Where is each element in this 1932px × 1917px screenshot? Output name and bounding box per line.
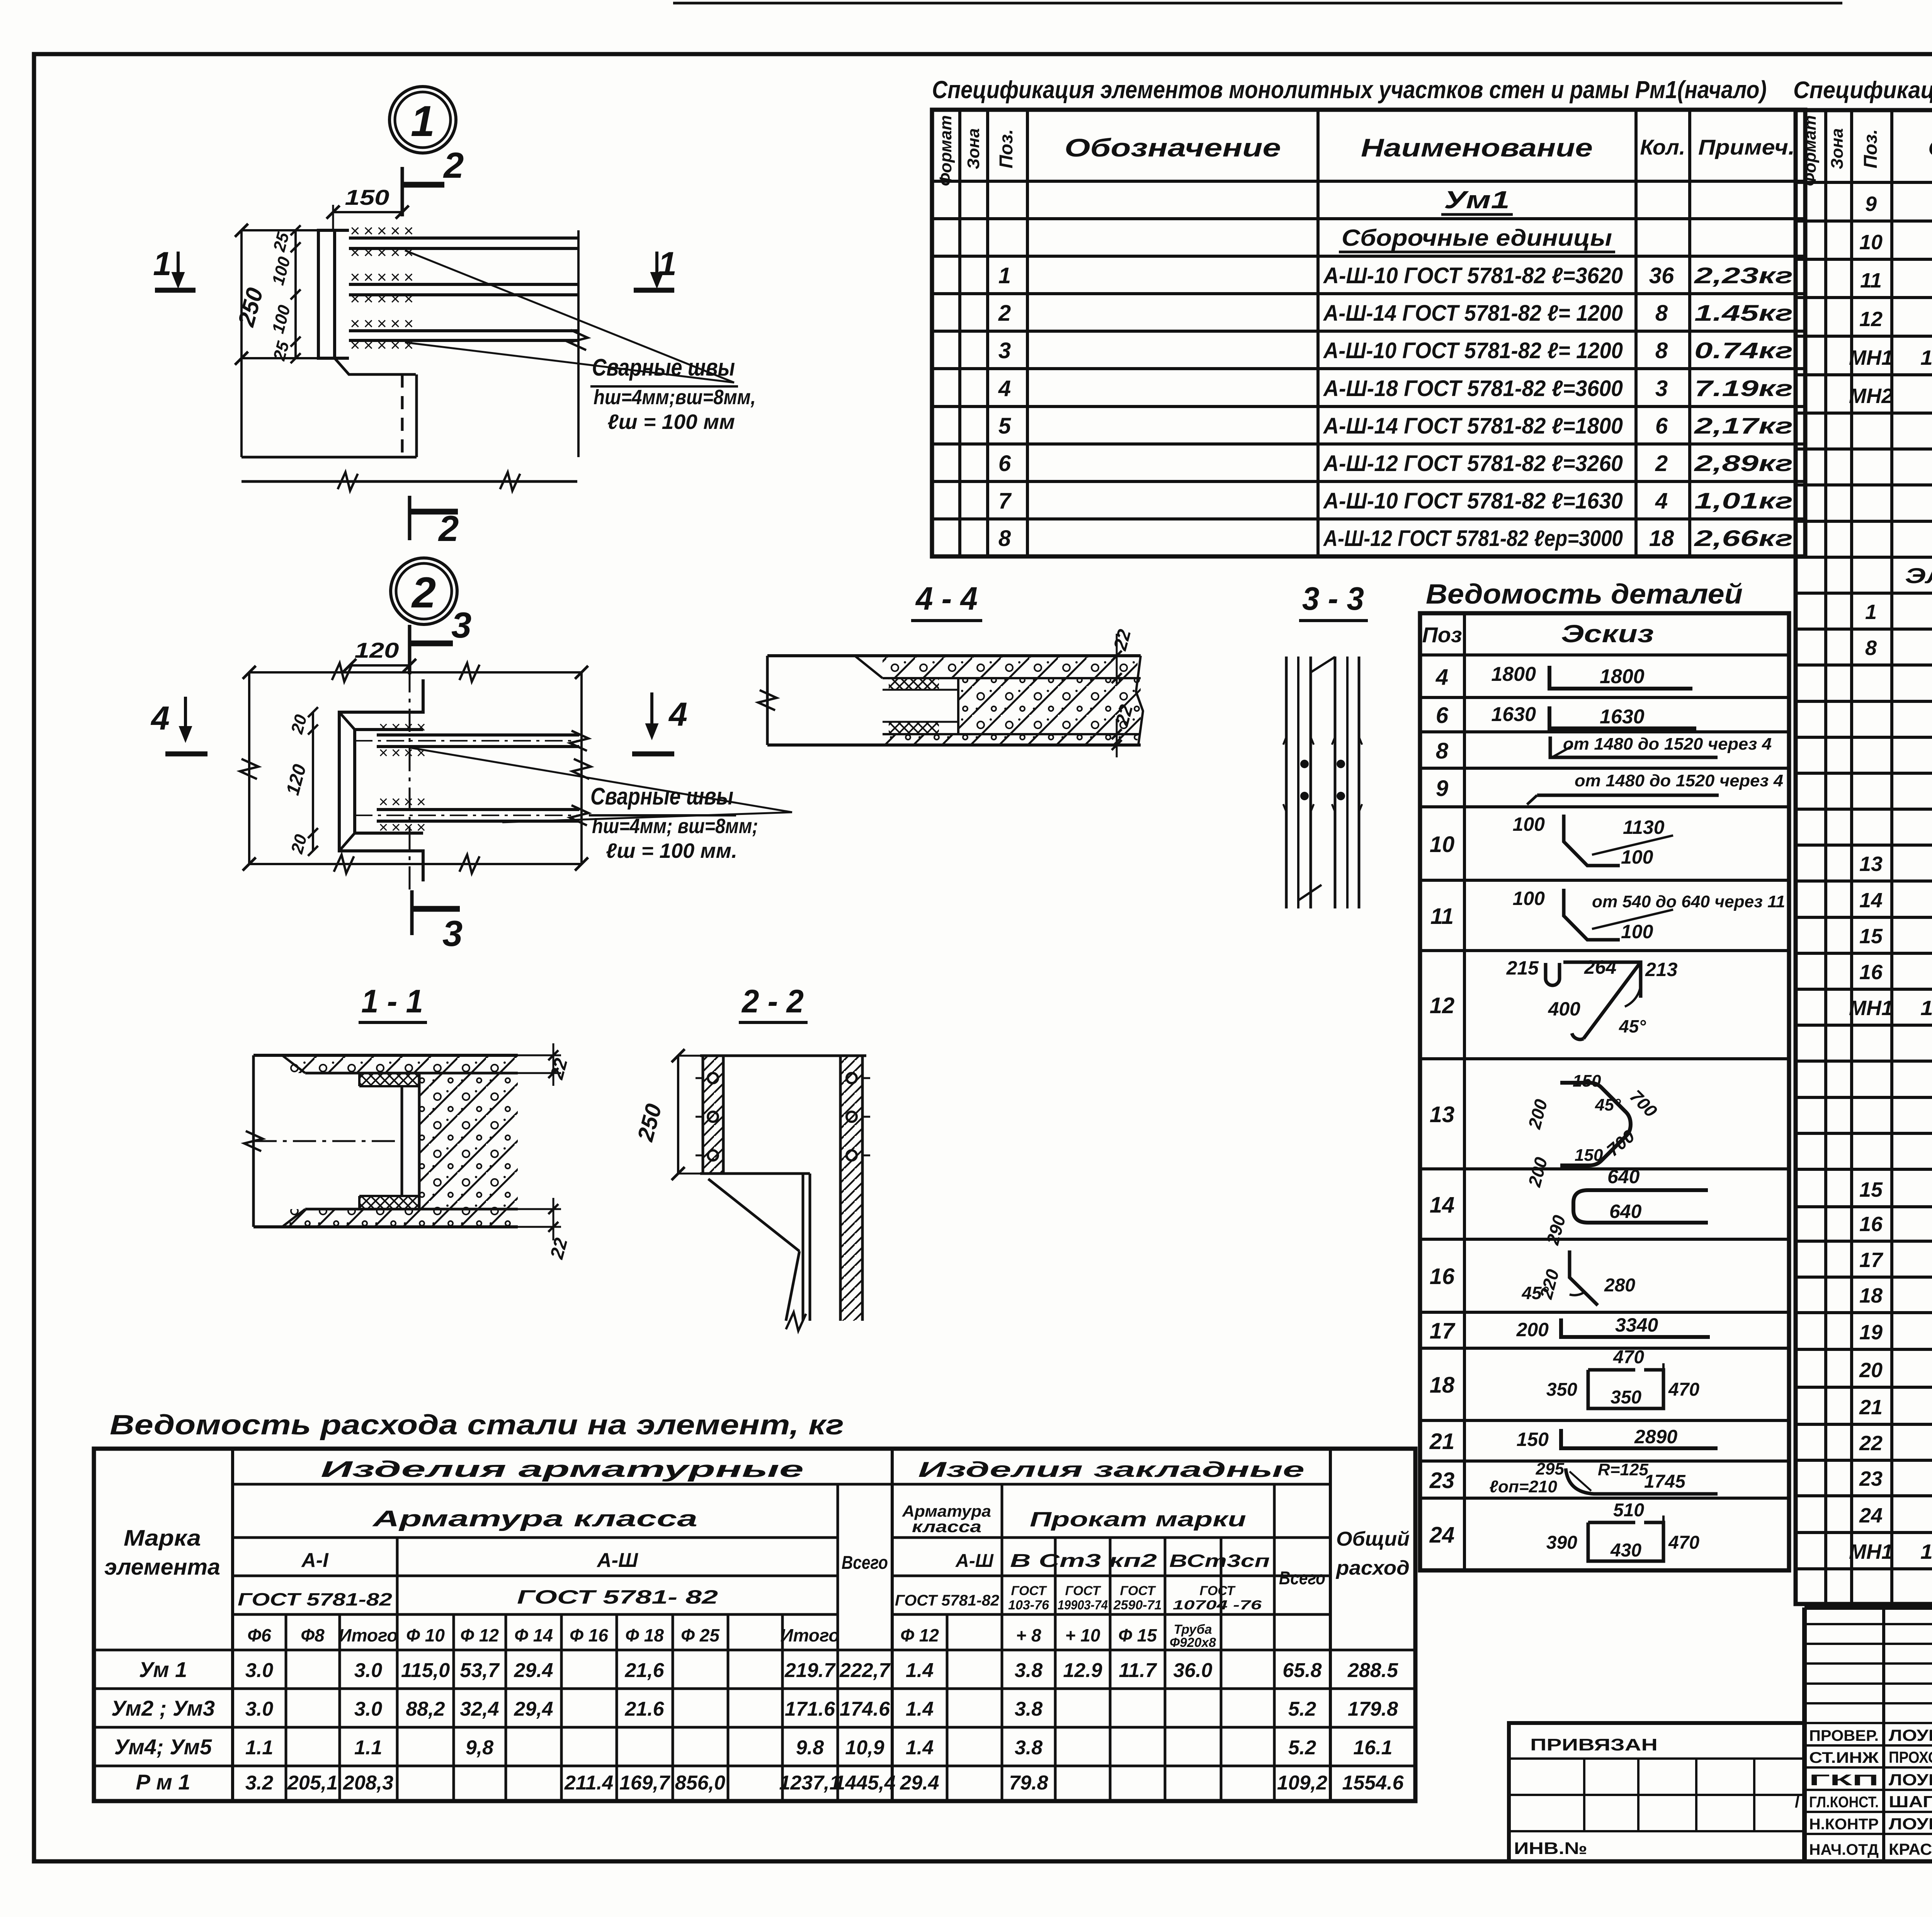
svg-text:1.45кг: 1.45кг	[1694, 301, 1793, 326]
svg-text:9,8: 9,8	[466, 1737, 493, 1759]
svg-text:ГКП: ГКП	[1809, 1772, 1879, 1789]
svg-text:МН2: МН2	[1849, 384, 1893, 408]
svg-text:21.6: 21.6	[624, 1698, 664, 1720]
svg-text:ИНВ.№: ИНВ.№	[1514, 1839, 1587, 1858]
svg-text:88,2: 88,2	[406, 1698, 445, 1720]
detail 2 section mark 3 top	[408, 625, 412, 674]
section 4-4 concrete body	[958, 678, 1141, 734]
svg-text:1: 1	[658, 245, 677, 282]
svg-text:от 1480 до 1520 через 4: от 1480 до 1520 через 4	[1575, 771, 1783, 790]
svg-text:14: 14	[1859, 889, 1883, 912]
section 4-4 weld strips	[889, 678, 939, 690]
svg-text:2: 2	[438, 508, 459, 549]
detail 1 section mark 1 right	[634, 288, 674, 293]
svg-text:А-Ш-12 ГОСТ 5781-82 ℓер=3000: А-Ш-12 ГОСТ 5781-82 ℓер=3000	[1323, 526, 1623, 551]
svg-text:1: 1	[411, 97, 435, 145]
svg-text:22: 22	[1859, 1432, 1883, 1455]
scan edge artifact top	[673, 2, 1842, 5]
svg-text:470: 470	[1668, 1533, 1699, 1553]
svg-text:400: 400	[1548, 998, 1581, 1020]
svg-text:Ф 16: Ф 16	[570, 1625, 608, 1645]
svg-text:21: 21	[1429, 1429, 1455, 1454]
svg-text:211.4: 211.4	[564, 1772, 613, 1794]
detail 2 centerline	[409, 630, 411, 893]
svg-text:+ 8: + 8	[1016, 1625, 1041, 1645]
detail 2 right dim line	[580, 672, 583, 864]
svg-text:1445,4: 1445,4	[834, 1772, 895, 1794]
svg-text:ℓоп=210: ℓоп=210	[1489, 1477, 1557, 1496]
svg-text:2890: 2890	[1634, 1426, 1677, 1448]
svg-text:3.8: 3.8	[1015, 1659, 1043, 1682]
svg-text:264: 264	[1584, 956, 1616, 978]
svg-text:19903-74: 19903-74	[1058, 1598, 1108, 1613]
svg-text:11.7: 11.7	[1119, 1659, 1157, 1682]
section 4-4 dim 22 top	[1116, 634, 1118, 684]
svg-text:5.2: 5.2	[1288, 1698, 1316, 1720]
svg-text:1554.6: 1554.6	[1342, 1772, 1404, 1794]
svg-text:2: 2	[411, 568, 436, 617]
svg-text:856,0: 856,0	[675, 1772, 725, 1794]
svg-text:1800: 1800	[1600, 665, 1645, 688]
svg-text:ГОСТ: ГОСТ	[1200, 1584, 1236, 1598]
detail 1 right edge	[577, 230, 580, 457]
svg-text:11: 11	[1430, 904, 1454, 929]
svg-text:3340: 3340	[1615, 1314, 1658, 1336]
svg-text:3: 3	[451, 605, 471, 645]
detail 2 left dim line	[248, 672, 250, 864]
svg-text:103-76: 103-76	[1008, 1598, 1049, 1613]
svg-text:ГОСТ 5781-82: ГОСТ 5781-82	[895, 1592, 999, 1609]
svg-text:4: 4	[1655, 488, 1668, 514]
svg-text:Примеч.: Примеч.	[1698, 135, 1795, 159]
svg-text:32,4: 32,4	[460, 1698, 499, 1720]
detail 1 section mark 1 left	[155, 288, 196, 293]
svg-text:10: 10	[1430, 832, 1455, 857]
svg-text:8: 8	[1655, 338, 1668, 363]
svg-text:24: 24	[1429, 1522, 1455, 1548]
parts list grid	[1420, 613, 1789, 1570]
section 2-2 bolts	[708, 1073, 718, 1083]
svg-text:169,7: 169,7	[619, 1772, 670, 1794]
svg-text:8: 8	[1865, 636, 1877, 660]
svg-text:Ведомость деталей: Ведомость деталей	[1426, 579, 1743, 610]
svg-text:А-Ш-14 ГОСТ 5781-82 ℓ=1800: А-Ш-14 ГОСТ 5781-82 ℓ=1800	[1323, 413, 1623, 439]
svg-text:Всего: Всего	[842, 1553, 888, 1573]
svg-text:Формат: Формат	[1801, 115, 1820, 186]
detail 2 channel plate (plan)	[339, 679, 423, 881]
svg-text:Итого: Итого	[339, 1625, 398, 1645]
svg-text:Кол.: Кол.	[1640, 135, 1685, 159]
svg-text:4: 4	[668, 696, 687, 733]
detail 2 weld leader lines	[410, 748, 792, 812]
svg-text:Поз.: Поз.	[1861, 129, 1881, 168]
svg-text:13: 13	[1430, 1102, 1455, 1127]
svg-text:5: 5	[998, 413, 1011, 439]
svg-text:200: 200	[1516, 1319, 1549, 1340]
svg-text:36.0: 36.0	[1173, 1659, 1212, 1682]
detail 2 dim chain 20/120/20	[312, 712, 314, 851]
svg-text:640: 640	[1609, 1201, 1642, 1222]
svg-text:2 - 2: 2 - 2	[741, 983, 804, 1019]
svg-text:Ум1: Ум1	[1444, 186, 1510, 214]
svg-text:20: 20	[1859, 1359, 1883, 1382]
svg-text:19: 19	[1859, 1321, 1883, 1344]
svg-text:23: 23	[1429, 1468, 1455, 1493]
svg-text:11: 11	[1860, 269, 1882, 292]
svg-text:174.6: 174.6	[840, 1698, 890, 1720]
title block	[1804, 1607, 1932, 1861]
svg-text:Поз.: Поз.	[996, 129, 1017, 168]
sketch row 14	[1573, 1190, 1708, 1223]
svg-text:ГОСТ 5781- 82: ГОСТ 5781- 82	[517, 1586, 718, 1608]
svg-text:1630: 1630	[1600, 706, 1645, 728]
svg-text:ГОСТ: ГОСТ	[1065, 1584, 1102, 1598]
svg-text:1: 1	[998, 263, 1011, 288]
sketch row 6	[1549, 706, 1696, 728]
svg-text:1.1: 1.1	[245, 1737, 273, 1759]
svg-text:Ф920х8: Ф920х8	[1170, 1635, 1216, 1650]
svg-text:Общий: Общий	[1336, 1528, 1410, 1550]
svg-text:ГОСТ: ГОСТ	[1011, 1584, 1048, 1598]
svg-text:3.0: 3.0	[354, 1698, 382, 1720]
svg-text:ЛОУЦКЕР: ЛОУЦКЕР	[1889, 1771, 1932, 1789]
svg-text:3.2: 3.2	[245, 1772, 273, 1794]
section 1-1 dim 22 top	[518, 1055, 561, 1056]
svg-text:10704 -76: 10704 -76	[1173, 1598, 1262, 1613]
svg-text:2,66кг: 2,66кг	[1694, 526, 1793, 551]
svg-text:1.400-15.В1. 150-26: 1.400-15.В1. 150-26	[1920, 997, 1932, 1020]
svg-text:2,23кг: 2,23кг	[1694, 263, 1793, 288]
svg-text:510: 510	[1613, 1500, 1644, 1521]
svg-text:1.400-15. В1. 150-26: 1.400-15. В1. 150-26	[1920, 1540, 1932, 1563]
svg-text:××××: ××××	[379, 793, 429, 811]
svg-text:А-Ш-14 ГОСТ 5781-82 ℓ= 1200: А-Ш-14 ГОСТ 5781-82 ℓ= 1200	[1323, 301, 1623, 326]
svg-text:3.8: 3.8	[1015, 1698, 1043, 1720]
section 1-1 top weld strip	[359, 1073, 419, 1086]
svg-text:××××: ××××	[379, 718, 429, 736]
svg-text:Ф 12: Ф 12	[460, 1625, 499, 1645]
svg-text:Обозначение: Обозначение	[1928, 133, 1932, 162]
svg-text:СТ.ИНЖ: СТ.ИНЖ	[1809, 1749, 1879, 1766]
svg-text:45°: 45°	[1619, 1016, 1646, 1036]
svg-text:Сварные швы: Сварные швы	[592, 354, 735, 381]
svg-text:×××××: ×××××	[350, 221, 417, 240]
svg-text:219.7: 219.7	[784, 1659, 836, 1682]
section 4-4 bottom concrete band	[883, 734, 1138, 745]
svg-text:3.0: 3.0	[245, 1698, 273, 1720]
svg-text:3: 3	[442, 913, 463, 954]
section 1-1 dim 22 bottom	[518, 1208, 561, 1210]
svg-text:179.8: 179.8	[1348, 1698, 1398, 1720]
svg-text:Зона: Зона	[964, 128, 983, 169]
svg-text:hш=4мм; вш=8мм;: hш=4мм; вш=8мм;	[592, 815, 758, 838]
svg-text:2,17кг: 2,17кг	[1694, 413, 1793, 439]
svg-text:Ф 25: Ф 25	[681, 1625, 720, 1645]
svg-text:213: 213	[1645, 959, 1678, 980]
svg-text:Изделия закладные: Изделия закладные	[918, 1457, 1304, 1482]
svg-text:4: 4	[150, 700, 170, 737]
svg-text:Зона: Зона	[1828, 128, 1847, 169]
detail 1 rebar bars	[349, 236, 578, 240]
svg-text:×××××: ×××××	[350, 289, 417, 308]
svg-text:1630: 1630	[1491, 703, 1536, 726]
svg-text:А-Ш-10 ГОСТ 5781-82 ℓ=1630: А-Ш-10 ГОСТ 5781-82 ℓ=1630	[1323, 488, 1623, 514]
svg-text:1800: 1800	[1491, 663, 1536, 685]
svg-text:16: 16	[1859, 961, 1883, 984]
svg-text:Спецификация элементов монолит: Спецификация элементов монолитных участк…	[932, 76, 1767, 104]
svg-text:150: 150	[1575, 1146, 1603, 1165]
svg-text:Ведомость расхода стали на: Ведомость расхода стали на элемент, кг	[110, 1410, 844, 1441]
svg-text:МН1: МН1	[1849, 1540, 1893, 1563]
svg-text:Сборочные единицы: Сборочные единицы	[1342, 225, 1612, 251]
svg-text:79.8: 79.8	[1009, 1772, 1048, 1794]
svg-text:16: 16	[1430, 1264, 1455, 1289]
svg-text:430: 430	[1610, 1540, 1641, 1561]
svg-text:×××××: ×××××	[350, 268, 417, 287]
svg-text:12.9: 12.9	[1063, 1659, 1102, 1682]
svg-text:Марка: Марка	[124, 1526, 201, 1551]
svg-text:350: 350	[1546, 1379, 1577, 1400]
svg-text:3 - 3: 3 - 3	[1302, 580, 1364, 617]
section 3-3 left wall element	[1285, 657, 1288, 908]
spec table 1 grid	[932, 110, 1805, 556]
svg-text:8: 8	[1436, 738, 1449, 764]
svg-text:ПРОХОРОВА: ПРОХОРОВА	[1889, 1748, 1932, 1766]
svg-text:от 540 до 640 через 11: от 540 до 640 через 11	[1592, 892, 1785, 911]
svg-text:1.4: 1.4	[906, 1737, 934, 1759]
svg-text:1: 1	[1865, 600, 1877, 624]
svg-text:45°: 45°	[1521, 1283, 1549, 1303]
svg-text:3: 3	[998, 338, 1011, 363]
svg-text:53,7: 53,7	[460, 1659, 500, 1682]
svg-text:21: 21	[1859, 1396, 1883, 1419]
svg-text:2: 2	[998, 301, 1011, 326]
svg-text:222,7: 222,7	[839, 1659, 891, 1682]
svg-text:208,3: 208,3	[343, 1772, 393, 1794]
svg-text:9: 9	[1436, 776, 1448, 801]
svg-text:2,89кг: 2,89кг	[1694, 451, 1793, 476]
svg-text:А-Ш-18 ГОСТ 5781-82 ℓ=3600: А-Ш-18 ГОСТ 5781-82 ℓ=3600	[1323, 376, 1623, 401]
svg-text:2590-71: 2590-71	[1113, 1598, 1162, 1613]
svg-text:10: 10	[1859, 231, 1883, 254]
svg-text:Ум 1: Ум 1	[139, 1657, 187, 1682]
svg-text:100: 100	[1621, 921, 1653, 942]
svg-text:4: 4	[998, 376, 1011, 401]
svg-text:МН1: МН1	[1849, 346, 1893, 369]
svg-text:ГОСТ 5781-82: ГОСТ 5781-82	[238, 1589, 393, 1609]
svg-text:Ум4; Ум5: Ум4; Ум5	[114, 1735, 212, 1759]
svg-text:Всего: Всего	[1279, 1568, 1325, 1589]
svg-text:171.6: 171.6	[785, 1698, 835, 1720]
svg-text:hш=4мм;вш=8мм,: hш=4мм;вш=8мм,	[594, 386, 756, 409]
svg-text:36: 36	[1649, 263, 1674, 288]
detail 2 bubble	[391, 558, 457, 624]
section 2-2 dim 250	[677, 1056, 679, 1174]
svg-text:2: 2	[443, 145, 464, 185]
svg-text:ЛОУЦКЕР: ЛОУЦКЕР	[1889, 1815, 1932, 1833]
svg-text:1.4: 1.4	[906, 1698, 934, 1720]
section 1-1 channel steel	[401, 1086, 403, 1196]
svg-text:150: 150	[1573, 1072, 1601, 1090]
svg-text:5.2: 5.2	[1288, 1737, 1316, 1759]
svg-text:Ф6: Ф6	[247, 1625, 271, 1645]
svg-text:4: 4	[1435, 665, 1448, 690]
svg-text:Ум2 ; Ум3: Ум2 ; Ум3	[111, 1696, 215, 1720]
svg-text:расход: расход	[1335, 1557, 1410, 1579]
svg-text:12: 12	[1430, 993, 1455, 1018]
svg-text:280: 280	[1604, 1275, 1635, 1296]
svg-text:ГОСТ: ГОСТ	[1120, 1584, 1156, 1598]
detail 2 top dim line	[249, 671, 582, 674]
svg-text:12: 12	[1859, 308, 1883, 331]
section 1-1 left edge	[252, 1055, 255, 1227]
detail 1 section mark 2 bottom	[408, 496, 412, 540]
section 1-1 centerline	[253, 1140, 402, 1142]
spec table 2 grid	[1796, 110, 1932, 1604]
svg-text:элемента: элемента	[104, 1555, 220, 1580]
section 3-3 break marks	[1311, 657, 1335, 672]
svg-text:470: 470	[1613, 1347, 1644, 1368]
svg-text:Р м 1: Р м 1	[136, 1770, 190, 1794]
svg-text:109,2: 109,2	[1277, 1772, 1327, 1794]
svg-text:1.400-15. В1. 150-26: 1.400-15. В1. 150-26	[1920, 346, 1932, 369]
detail 2 bottom dim line	[249, 863, 582, 865]
svg-text:Ф 15: Ф 15	[1118, 1625, 1157, 1645]
sketch row 10	[1564, 815, 1620, 866]
svg-text:×××××: ×××××	[350, 314, 417, 333]
svg-text:18: 18	[1859, 1284, 1883, 1307]
svg-text:А-Ш-10 ГОСТ 5781-82 ℓ=3620: А-Ш-10 ГОСТ 5781-82 ℓ=3620	[1323, 263, 1623, 288]
detail 1 bottom boundary line	[241, 480, 577, 483]
svg-text:ℓш = 100 мм: ℓш = 100 мм	[607, 410, 735, 434]
svg-text:Обозначение: Обозначение	[1065, 133, 1281, 162]
attachment box (privyazan)	[1509, 1723, 1804, 1861]
svg-text:150: 150	[1517, 1429, 1549, 1450]
svg-text:1.4: 1.4	[906, 1659, 934, 1682]
svg-text:16.1: 16.1	[1353, 1737, 1392, 1759]
svg-text:100: 100	[1621, 846, 1653, 868]
svg-text:4 - 4: 4 - 4	[915, 580, 978, 617]
svg-text:Арматура класса: Арматура класса	[372, 1506, 697, 1531]
svg-text:15: 15	[1859, 1178, 1883, 1201]
sketch row 4	[1549, 666, 1692, 689]
svg-text:Спецификация элементов моноли: Спецификация элементов монолитных участк…	[1793, 77, 1932, 104]
svg-text:В Ст3 кп2: В Ст3 кп2	[1010, 1551, 1157, 1571]
svg-text:18: 18	[1430, 1373, 1455, 1398]
svg-text:45°: 45°	[1595, 1095, 1621, 1114]
svg-text:Ф 12: Ф 12	[900, 1625, 939, 1645]
section 4-4 dim 22 bottom	[1116, 719, 1118, 757]
svg-text:1237,1: 1237,1	[779, 1772, 840, 1794]
detail 1 dim chain 25/100/100/25	[294, 230, 297, 358]
svg-text:Поз: Поз	[1422, 623, 1462, 647]
section 4-4 top concrete band	[883, 656, 1138, 678]
svg-text:16: 16	[1859, 1213, 1883, 1236]
svg-text:Ф 14: Ф 14	[514, 1625, 553, 1645]
section 2-2 lower outline	[700, 1172, 810, 1175]
svg-text:R=125: R=125	[1598, 1460, 1648, 1479]
svg-text:КРАСАВИН: КРАСАВИН	[1889, 1840, 1932, 1858]
svg-text:1.1: 1.1	[354, 1737, 382, 1759]
svg-text:14: 14	[1430, 1192, 1455, 1218]
svg-text:150: 150	[345, 185, 389, 209]
svg-text:××××: ××××	[379, 818, 429, 836]
svg-text:470: 470	[1668, 1379, 1699, 1400]
svg-text:Наименование: Наименование	[1361, 133, 1593, 162]
detail 1 embedded channel plate	[318, 230, 349, 358]
svg-text:+ 10: + 10	[1065, 1625, 1100, 1645]
sketch row 16	[1570, 1250, 1598, 1305]
svg-text:А-Ш-12 ГОСТ 5781-82 ℓ=3260: А-Ш-12 ГОСТ 5781-82 ℓ=3260	[1323, 451, 1623, 476]
section 2-2 top edge	[700, 1055, 866, 1057]
svg-text:29.4: 29.4	[514, 1659, 553, 1682]
svg-text:А-Ш: А-Ш	[955, 1551, 994, 1571]
svg-text:390: 390	[1546, 1533, 1577, 1553]
svg-text:Элементы поз 2÷7; 9÷12 и МН1 с: Элементы поз 2÷7; 9÷12 и МН1 см Ум1	[1905, 563, 1932, 588]
svg-text:0.74кг: 0.74кг	[1694, 338, 1793, 363]
section 4-4 left steel part	[766, 656, 769, 745]
svg-text:ГЛ.КОНСТ.: ГЛ.КОНСТ.	[1809, 1794, 1879, 1811]
section 4-4 right break	[1136, 656, 1143, 745]
section 3-3 right wall element	[1334, 657, 1337, 908]
svg-text:А-Ш-10 ГОСТ 5781-82 ℓ= 1200: А-Ш-10 ГОСТ 5781-82 ℓ= 1200	[1323, 338, 1623, 363]
svg-text:29,4: 29,4	[514, 1698, 553, 1720]
svg-text:6: 6	[1436, 703, 1449, 728]
svg-text:×××××: ×××××	[350, 243, 417, 262]
svg-text:Труба: Труба	[1173, 1622, 1212, 1637]
svg-text:А-Ш: А-Ш	[596, 1549, 638, 1572]
svg-text:24: 24	[1859, 1504, 1883, 1527]
svg-text:295: 295	[1536, 1459, 1565, 1478]
svg-text:205,1: 205,1	[287, 1772, 338, 1794]
svg-text:3.8: 3.8	[1015, 1737, 1043, 1759]
svg-text:17: 17	[1859, 1249, 1884, 1272]
svg-text:23: 23	[1859, 1467, 1883, 1490]
svg-text:ПРОВЕР.: ПРОВЕР.	[1809, 1727, 1879, 1744]
svg-text:Прокат марки: Прокат марки	[1030, 1508, 1246, 1531]
svg-text:1,01кг: 1,01кг	[1694, 488, 1793, 514]
section 2-2 right plate	[840, 1056, 862, 1321]
detail 1 left dim chain 250	[240, 230, 243, 457]
svg-text:А-I: А-I	[301, 1549, 329, 1572]
svg-text:Изделия арматурные: Изделия арматурные	[321, 1457, 804, 1482]
svg-text:ℓш = 100 мм.: ℓш = 100 мм.	[606, 839, 737, 862]
svg-text:3.0: 3.0	[354, 1659, 382, 1682]
section 2-2 left plate	[703, 1056, 723, 1174]
svg-text:21,6: 21,6	[624, 1659, 664, 1682]
detail 1 weld leader lines	[405, 250, 734, 383]
svg-text:ШАПИРО: ШАПИРО	[1889, 1793, 1932, 1811]
svg-text:Формат: Формат	[936, 115, 955, 186]
svg-text:7: 7	[998, 488, 1012, 514]
svg-text:ВСт3сп: ВСт3сп	[1169, 1551, 1270, 1571]
svg-text:350: 350	[1611, 1387, 1641, 1408]
svg-text:3: 3	[1655, 376, 1668, 401]
svg-text:640: 640	[1607, 1166, 1640, 1187]
section 1-1 top slab concrete	[288, 1055, 518, 1073]
svg-text:××××: ××××	[379, 743, 429, 762]
svg-text:215: 215	[1506, 957, 1539, 979]
svg-text:МН1: МН1	[1849, 997, 1893, 1020]
svg-text:3.0: 3.0	[245, 1659, 273, 1682]
sketch row 13	[1560, 1083, 1631, 1165]
svg-text:Ф 18: Ф 18	[625, 1625, 664, 1645]
svg-text:15: 15	[1859, 925, 1883, 948]
detail 1 bubble	[389, 87, 456, 153]
svg-text:100: 100	[1513, 813, 1545, 835]
svg-text:65.8: 65.8	[1282, 1659, 1321, 1682]
svg-text:ПРИВЯЗАН: ПРИВЯЗАН	[1530, 1735, 1658, 1754]
